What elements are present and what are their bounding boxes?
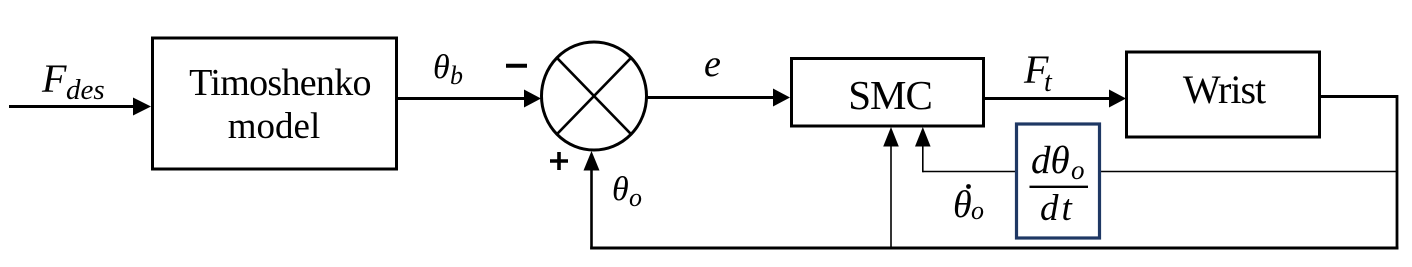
svg-text:t: t bbox=[1044, 67, 1053, 98]
svg-text:o: o bbox=[971, 196, 984, 225]
svg-text:des: des bbox=[66, 74, 105, 106]
svg-text:dt: dt bbox=[1040, 188, 1075, 229]
svg-text:Timoshenko: Timoshenko bbox=[189, 62, 371, 104]
svg-text:θ: θ bbox=[433, 49, 450, 86]
svg-text:θ: θ bbox=[612, 171, 629, 208]
svg-text:b: b bbox=[450, 61, 463, 90]
svg-text:θ: θ bbox=[953, 184, 972, 226]
svg-text:SMC: SMC bbox=[848, 72, 932, 118]
svg-text:model: model bbox=[228, 106, 320, 147]
svg-text:F: F bbox=[41, 56, 67, 101]
svg-text:e: e bbox=[704, 43, 721, 85]
svg-text:o: o bbox=[629, 183, 642, 212]
svg-text:dθ: dθ bbox=[1031, 139, 1070, 182]
svg-text:Wrist: Wrist bbox=[1183, 67, 1266, 112]
svg-text:o: o bbox=[1071, 155, 1085, 185]
